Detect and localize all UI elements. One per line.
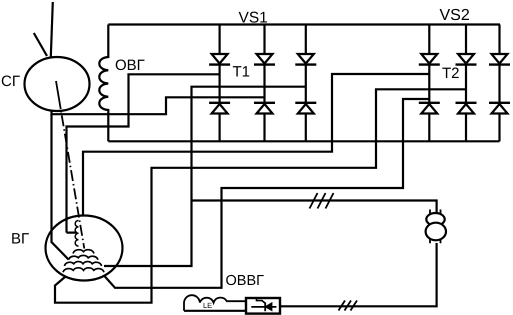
exciter VG circle — [46, 216, 123, 281]
svg-text:Т2: Т2 — [442, 65, 460, 82]
thyristor leg T1-3 — [295, 25, 316, 142]
thyristor leg T1-2 — [254, 25, 275, 142]
wire VG bottom right to T2 leg1 lower — [104, 99, 429, 288]
rectifier inner wire — [251, 306, 276, 308]
wire SG bottom to T1 leg2 — [52, 97, 265, 114]
svg-text:VS1: VS1 — [239, 10, 268, 27]
svg-text:ОВГ: ОВГ — [115, 57, 145, 74]
wire VG top right to T2 leg1 upper — [83, 74, 429, 216]
transformer ticks — [430, 210, 441, 244]
svg-text:LE: LE — [203, 301, 212, 310]
OVVG coil baseline — [184, 310, 246, 312]
VG armature winding row4 — [63, 268, 104, 273]
rotating transformer upper circle — [426, 213, 444, 226]
bottom bus wire y141 — [108, 140, 499, 142]
wire VG rotor to T1 leg1 — [67, 74, 220, 232]
rectifier thyristor — [265, 303, 271, 311]
field winding OVG coil — [99, 25, 108, 142]
shaft axis solid segment — [56, 81, 61, 109]
wire junction to transformer top — [192, 201, 437, 214]
wire rectifier box to transformer bottom — [280, 243, 437, 306]
VG armature winding row2 — [69, 255, 99, 259]
shaft axis dash-dot line — [61, 111, 84, 249]
VG armature winding row1 — [73, 250, 94, 254]
rectifier gate lead — [257, 299, 266, 304]
OVVG coil — [184, 295, 246, 311]
svg-text:СГ: СГ — [1, 73, 20, 90]
thyristor leg T2-1 — [419, 25, 440, 142]
brush slash marks upper — [310, 193, 334, 209]
VG armature winding row3 — [65, 262, 102, 266]
top rail VS — [108, 23, 500, 25]
wire SG down to VG stator left — [52, 114, 69, 259]
thyristor leg T2-2 — [456, 25, 477, 142]
wire VG stator right to T1 leg3 — [104, 87, 306, 266]
wire VG bottom left to T2 leg2 — [55, 89, 466, 302]
svg-text:VS2: VS2 — [440, 7, 470, 24]
svg-text:ВГ: ВГ — [11, 231, 29, 248]
rotating rectifier box — [246, 298, 280, 314]
VG rotor spring coil — [75, 221, 78, 247]
svg-text:Т1: Т1 — [233, 63, 251, 80]
rotating transformer lower circle — [426, 223, 446, 241]
generator SG shaft line 2 — [34, 33, 47, 56]
generator SG circle — [25, 57, 90, 111]
brush slash marks lower — [339, 301, 358, 311]
svg-text:ОВВГ: ОВВГ — [226, 273, 265, 289]
thyristor leg T2-3 — [489, 25, 510, 142]
thyristor leg T1-1 — [209, 25, 230, 142]
generator SG shaft line 1 — [51, 2, 53, 57]
